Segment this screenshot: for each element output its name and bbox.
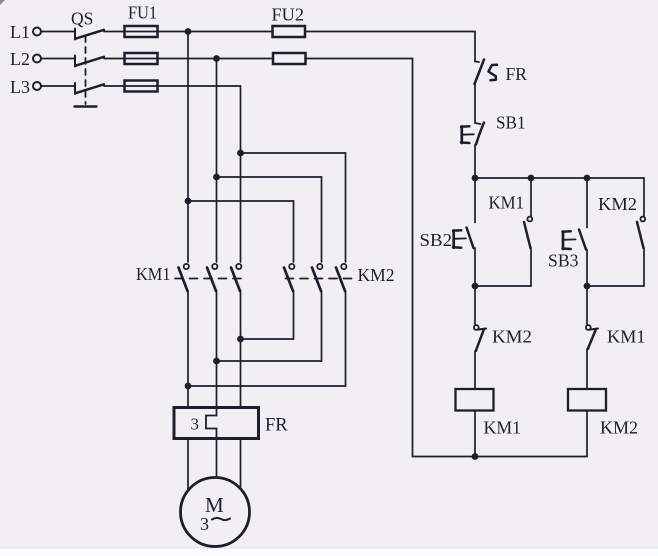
wire tap C to KM2 pole3	[241, 153, 346, 262]
wire KM2 seal-in loop bottom	[587, 285, 644, 287]
svg-text:KM1: KM1	[607, 327, 646, 347]
node L2 junction	[213, 55, 220, 62]
svg-text:KM1: KM1	[136, 264, 171, 284]
wire KM2 pole2 crossover to phase B	[217, 291, 322, 361]
fuse FU2 pole 2	[273, 53, 306, 64]
node tap phase B	[213, 174, 220, 181]
svg-text:L1: L1	[10, 22, 30, 42]
svg-text:3: 3	[191, 415, 200, 434]
wire KM2 pole3 crossover to phase A	[188, 291, 346, 386]
wire interlock to KM2 coil	[586, 349, 588, 389]
fuse FU1 pole 1	[125, 26, 158, 37]
contactor KM1 NC interlock contact	[586, 325, 598, 349]
label SB2	[420, 230, 453, 250]
coil KM2	[568, 389, 606, 411]
motor M	[181, 478, 250, 547]
switch QS linkage dashed line	[75, 36, 97, 107]
contactor KM2 main label	[358, 265, 395, 285]
label L2	[10, 49, 30, 69]
svg-text:FU1: FU1	[128, 3, 157, 23]
contactor KM2 NC interlock contact	[474, 325, 486, 351]
wire L3 terminal to QS	[41, 85, 75, 87]
svg-text:KM2: KM2	[600, 418, 638, 438]
wire control top rail	[475, 177, 644, 179]
contactor KM1 main pole 1	[179, 264, 189, 291]
label KM2 aux	[598, 194, 637, 214]
wire SB3 to loop bottom	[586, 250, 588, 287]
svg-text:SB3: SB3	[548, 251, 579, 271]
node crossover phase B	[213, 358, 220, 365]
wire FR to motor phase C	[240, 439, 242, 490]
pushbutton SB3 start NO	[563, 178, 588, 250]
node rail at SB3	[584, 175, 591, 182]
svg-text:L3: L3	[10, 77, 30, 97]
contactor KM2 main pole 2	[312, 264, 322, 291]
terminal L2	[33, 55, 41, 63]
wire FR contact to SB1	[474, 84, 476, 123]
terminal L1	[33, 28, 41, 36]
node crossover phase C	[237, 336, 244, 343]
label KM2 interlock	[492, 327, 532, 347]
wire right branch to interlock	[586, 286, 588, 324]
wire FR to motor phase A	[187, 439, 189, 490]
wire main phase A vertical	[187, 32, 189, 263]
wire control bottom rail	[413, 456, 588, 458]
label L1	[10, 22, 30, 42]
node loop bottom left	[472, 283, 479, 290]
svg-text:QS: QS	[71, 9, 93, 29]
fuse FU2 pole 1	[273, 26, 306, 37]
wire left branch to interlock	[474, 286, 476, 324]
wire KM2 pole1 crossover to phase C	[241, 291, 294, 339]
wire SB1 to rail	[474, 145, 476, 179]
wire tap A to KM2 pole1	[188, 201, 294, 262]
svg-text:KM1: KM1	[489, 193, 525, 213]
wire FU2 row2 to left control column	[306, 59, 413, 457]
wire QS to FU1 row2	[104, 58, 125, 60]
thermal relay FR NC contact	[475, 60, 498, 85]
wire KM1 coil to bottom rail	[474, 411, 476, 457]
svg-text:FR: FR	[506, 64, 528, 84]
thermal relay FR heater box	[174, 408, 259, 439]
svg-text:KM2: KM2	[358, 265, 395, 285]
label KM1 coil	[484, 418, 522, 438]
wire FU1 to corner row3	[158, 85, 241, 87]
fuse group FU2 label	[272, 5, 305, 25]
contactor KM2 linkage dashed line	[286, 278, 352, 280]
wire KM1 seal-in loop bottom	[475, 285, 531, 287]
svg-text:3: 3	[200, 514, 209, 534]
wire QS to FU1 row3	[104, 85, 125, 87]
svg-text:FR: FR	[265, 416, 288, 436]
contactor KM2 main pole 3	[336, 264, 346, 291]
label L3	[10, 77, 30, 97]
contactor KM1 aux NO contact	[524, 178, 532, 286]
switch QS pole 2	[75, 56, 104, 67]
thermal relay FR label	[265, 416, 288, 436]
pushbutton SB1 stop NC	[461, 123, 484, 145]
wire KM1 pole2 lower vertical	[216, 291, 218, 408]
node rail at KM1 aux	[528, 175, 535, 182]
wire interlock to KM1 coil	[474, 351, 476, 389]
svg-text:KM2: KM2	[598, 194, 637, 214]
wire tap B to KM2 pole2	[217, 177, 322, 262]
fuse FU1 pole 3	[125, 81, 158, 92]
wire FR to motor phase B	[216, 439, 218, 478]
label SB3	[548, 251, 579, 271]
label SB1	[496, 113, 526, 133]
node rail at SB2	[472, 175, 479, 182]
label FR control contact	[506, 64, 528, 84]
pushbutton SB2 start NO	[453, 178, 475, 248]
contactor KM1 main pole 2	[207, 264, 217, 291]
fuse FU1 pole 2	[125, 53, 158, 64]
wire L1 terminal to QS	[41, 31, 75, 33]
contactor KM1 main label	[136, 264, 171, 284]
node tap phase C	[237, 150, 244, 157]
svg-text:SB1: SB1	[496, 113, 526, 133]
label KM2 coil	[600, 418, 638, 438]
svg-text:L2: L2	[10, 49, 30, 69]
contactor KM2 main pole 1	[284, 264, 294, 291]
label KM1 interlock	[607, 327, 646, 347]
contactor KM1 main pole 3	[231, 264, 241, 291]
node L1 junction	[185, 28, 192, 35]
svg-text:FU2: FU2	[272, 5, 305, 25]
node loop bottom right	[584, 283, 591, 290]
wire FU1 to FU2 row1	[158, 31, 273, 33]
fuse group FU1 label	[128, 3, 157, 23]
wire KM2 coil to bottom rail	[586, 411, 588, 457]
svg-text:KM1: KM1	[484, 418, 522, 438]
switch QS pole 3	[75, 83, 104, 94]
node crossover phase A	[185, 383, 192, 390]
wire KM1 pole1 lower vertical	[187, 291, 189, 408]
contactor KM1 linkage dashed line	[175, 278, 246, 280]
contactor KM2 aux NO contact	[637, 178, 645, 286]
coil KM1	[456, 389, 494, 411]
wire FU2 to control column right	[305, 32, 475, 62]
wire main phase B vertical	[216, 59, 218, 263]
node tap phase A	[185, 198, 192, 205]
wire QS to FU1 row1	[104, 31, 125, 33]
switch QS label	[71, 9, 93, 29]
wire L2 terminal to QS	[41, 58, 75, 60]
wire FU1 to FU2 row2	[158, 58, 274, 60]
label KM1 aux	[489, 193, 525, 213]
switch QS pole 1	[75, 29, 104, 40]
svg-text:KM2: KM2	[492, 327, 532, 347]
wire SB2 to loop bottom	[474, 248, 476, 286]
wire main phase C vertical	[240, 86, 242, 262]
svg-text:SB2: SB2	[420, 230, 453, 250]
wire KM1 pole3 lower vertical	[240, 291, 242, 408]
node bottom rail	[472, 453, 479, 460]
terminal L3	[33, 82, 41, 90]
